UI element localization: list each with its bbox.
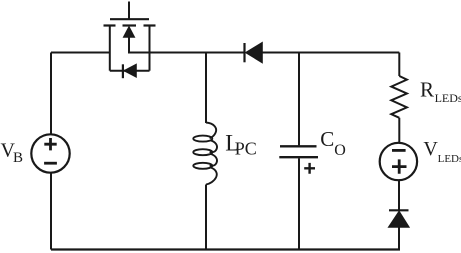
- source contact bar: [144, 24, 156, 26]
- wire capacitor branch lower: [298, 158, 300, 249]
- wire diode to bottom: [398, 227, 400, 250]
- wire right vertical upper: [398, 53, 400, 77]
- svg-text:V: V: [423, 138, 438, 160]
- svg-text:LEDs: LEDs: [438, 153, 461, 165]
- gate plate: [110, 18, 149, 20]
- label CO: [320, 127, 346, 159]
- wire top-left segment: [51, 52, 110, 54]
- gate lead: [128, 2, 130, 20]
- wire inductor branch upper: [205, 53, 207, 124]
- svg-text:PC: PC: [235, 139, 257, 159]
- body contact bar: [123, 24, 137, 26]
- diode D2 cathode bar: [389, 209, 409, 211]
- wire left vertical lower: [50, 173, 52, 250]
- svg-text:B: B: [13, 150, 23, 166]
- body diode triangle: [124, 64, 136, 77]
- svg-text:C: C: [320, 127, 334, 151]
- diode D1 triangle: [246, 42, 263, 62]
- label VLEDs: [423, 138, 461, 165]
- wire resistor to source: [398, 118, 400, 143]
- wire top right segment: [262, 52, 399, 54]
- body lead: [129, 37, 150, 53]
- wire bottom: [51, 248, 400, 250]
- diode D1 cathode bar: [243, 43, 245, 62]
- body diode cathode bar: [122, 64, 124, 78]
- wire capacitor branch upper: [298, 53, 300, 146]
- label LPC: [225, 130, 257, 158]
- wire left vertical upper: [50, 53, 52, 135]
- voltage source VLEDs: [380, 143, 417, 180]
- diode D2 triangle: [388, 211, 409, 227]
- source vertical: [149, 26, 151, 71]
- svg-text:O: O: [334, 142, 346, 159]
- wire inductor branch lower: [205, 185, 207, 250]
- transistor Q1 (MOSFET with body diode): [104, 2, 156, 79]
- label RLEDs: [420, 78, 461, 105]
- inductor LPC: [193, 123, 217, 185]
- label VB: [1, 139, 24, 166]
- drain contact bar: [104, 24, 116, 26]
- body diode loop bottom: [110, 70, 150, 72]
- wire top middle segment: [150, 52, 245, 54]
- svg-text:LEDs: LEDs: [435, 91, 461, 105]
- drain vertical: [109, 26, 111, 71]
- resistor RLEDs: [391, 76, 407, 118]
- capacitor CO: [279, 146, 318, 173]
- body arrow: [123, 27, 134, 38]
- svg-text:R: R: [420, 78, 434, 102]
- wire source to diode: [398, 180, 400, 209]
- voltage source VB: [31, 134, 69, 172]
